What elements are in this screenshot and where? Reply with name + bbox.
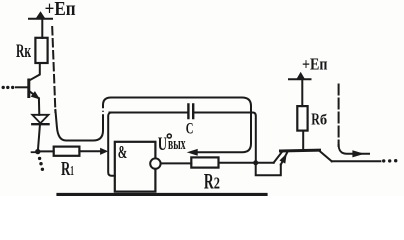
wire: diode to node A <box>38 125 40 150</box>
feedback annotation big loop top <box>103 98 251 153</box>
arrowhead of right annotation pointing right <box>353 151 363 157</box>
node B junction dot <box>253 160 258 165</box>
wire: node A to R1 <box>38 150 54 152</box>
wire: Q2 base to Rb <box>302 131 304 150</box>
transistor Q1 emitter <box>30 92 39 99</box>
power rail +Ep left: arrow bar <box>29 18 52 20</box>
diode VD1 cathode bar <box>32 123 48 125</box>
bottom border line <box>58 193 266 196</box>
power rail +Ep right: arrowhead <box>297 73 304 79</box>
svg-text:+Еп: +Еп <box>45 0 76 20</box>
svg-text:C: C <box>186 120 194 137</box>
wire: Rk to Q1 collector <box>29 63 40 81</box>
wire: node A stub left <box>32 151 38 153</box>
wire: supply to Rk <box>41 20 43 39</box>
NAND gate output bubble <box>150 158 160 168</box>
svg-text:&: & <box>118 142 128 162</box>
svg-text:R: R <box>61 158 71 180</box>
node A junction dot <box>35 149 40 154</box>
svg-text:2: 2 <box>214 173 220 192</box>
resistor R2 body <box>191 157 218 167</box>
degree mark over Uvyh <box>167 134 171 138</box>
wire: node B step to second emitter <box>256 163 281 175</box>
power rail +Ep right: arrow bar <box>289 78 311 80</box>
capacitor feedback line: left side down to gate input <box>108 113 115 176</box>
wire: collector to output continuation <box>332 160 381 162</box>
transistor Q2 collector <box>319 151 332 162</box>
capacitor C plates <box>188 105 193 119</box>
dots: input continuation left <box>2 86 15 89</box>
wire: R2 to node B <box>219 162 274 164</box>
wire: bubble to R2 <box>161 162 192 164</box>
feedback annotation curve left (solid hook) <box>55 107 103 141</box>
dots: continuation right <box>382 159 397 163</box>
svg-text:б: б <box>320 113 327 129</box>
signal flow annotation right (solid curve) <box>339 145 369 154</box>
feedback annotation curve left (dashed part) <box>52 27 55 112</box>
transistor Q2 emitter 2 <box>281 152 288 164</box>
wire: emitter to diode <box>38 98 40 114</box>
power rail +Ep left: arrowhead <box>36 12 45 18</box>
diode VD1 triangle <box>32 115 48 123</box>
transistor Q1 base bar <box>27 80 30 97</box>
wire: Q1 base lead <box>16 86 28 88</box>
wire: R1 to gate input node <box>79 150 101 152</box>
dots: continuation below node A <box>38 157 44 171</box>
transistor Q2 emitter arrowhead <box>280 155 286 163</box>
signal flow annotation right (dashed) <box>338 85 340 147</box>
arrowhead of feedback loop pointing left <box>188 150 197 156</box>
wire: Rb to supply <box>301 81 303 107</box>
transistor Q2 emitter 1 <box>274 152 283 163</box>
resistor Rb body <box>297 106 307 131</box>
small gap artifact on loop left side <box>102 110 105 114</box>
capacitor feedback line: top right segment <box>194 113 256 163</box>
resistor Rk body <box>35 38 47 63</box>
transistor Q1 emitter arrowhead <box>32 92 40 99</box>
svg-text:U: U <box>158 134 167 155</box>
svg-text:Rк: Rк <box>16 41 31 62</box>
capacitor feedback line: top left segment <box>110 112 188 114</box>
transistor Q2 base bar <box>281 149 320 153</box>
arrowhead into gate input node <box>101 149 107 155</box>
NAND gate U1 box <box>115 142 156 192</box>
svg-text:1: 1 <box>70 164 74 179</box>
svg-text:+Еп: +Еп <box>302 55 328 74</box>
resistor R1 body <box>54 147 80 156</box>
